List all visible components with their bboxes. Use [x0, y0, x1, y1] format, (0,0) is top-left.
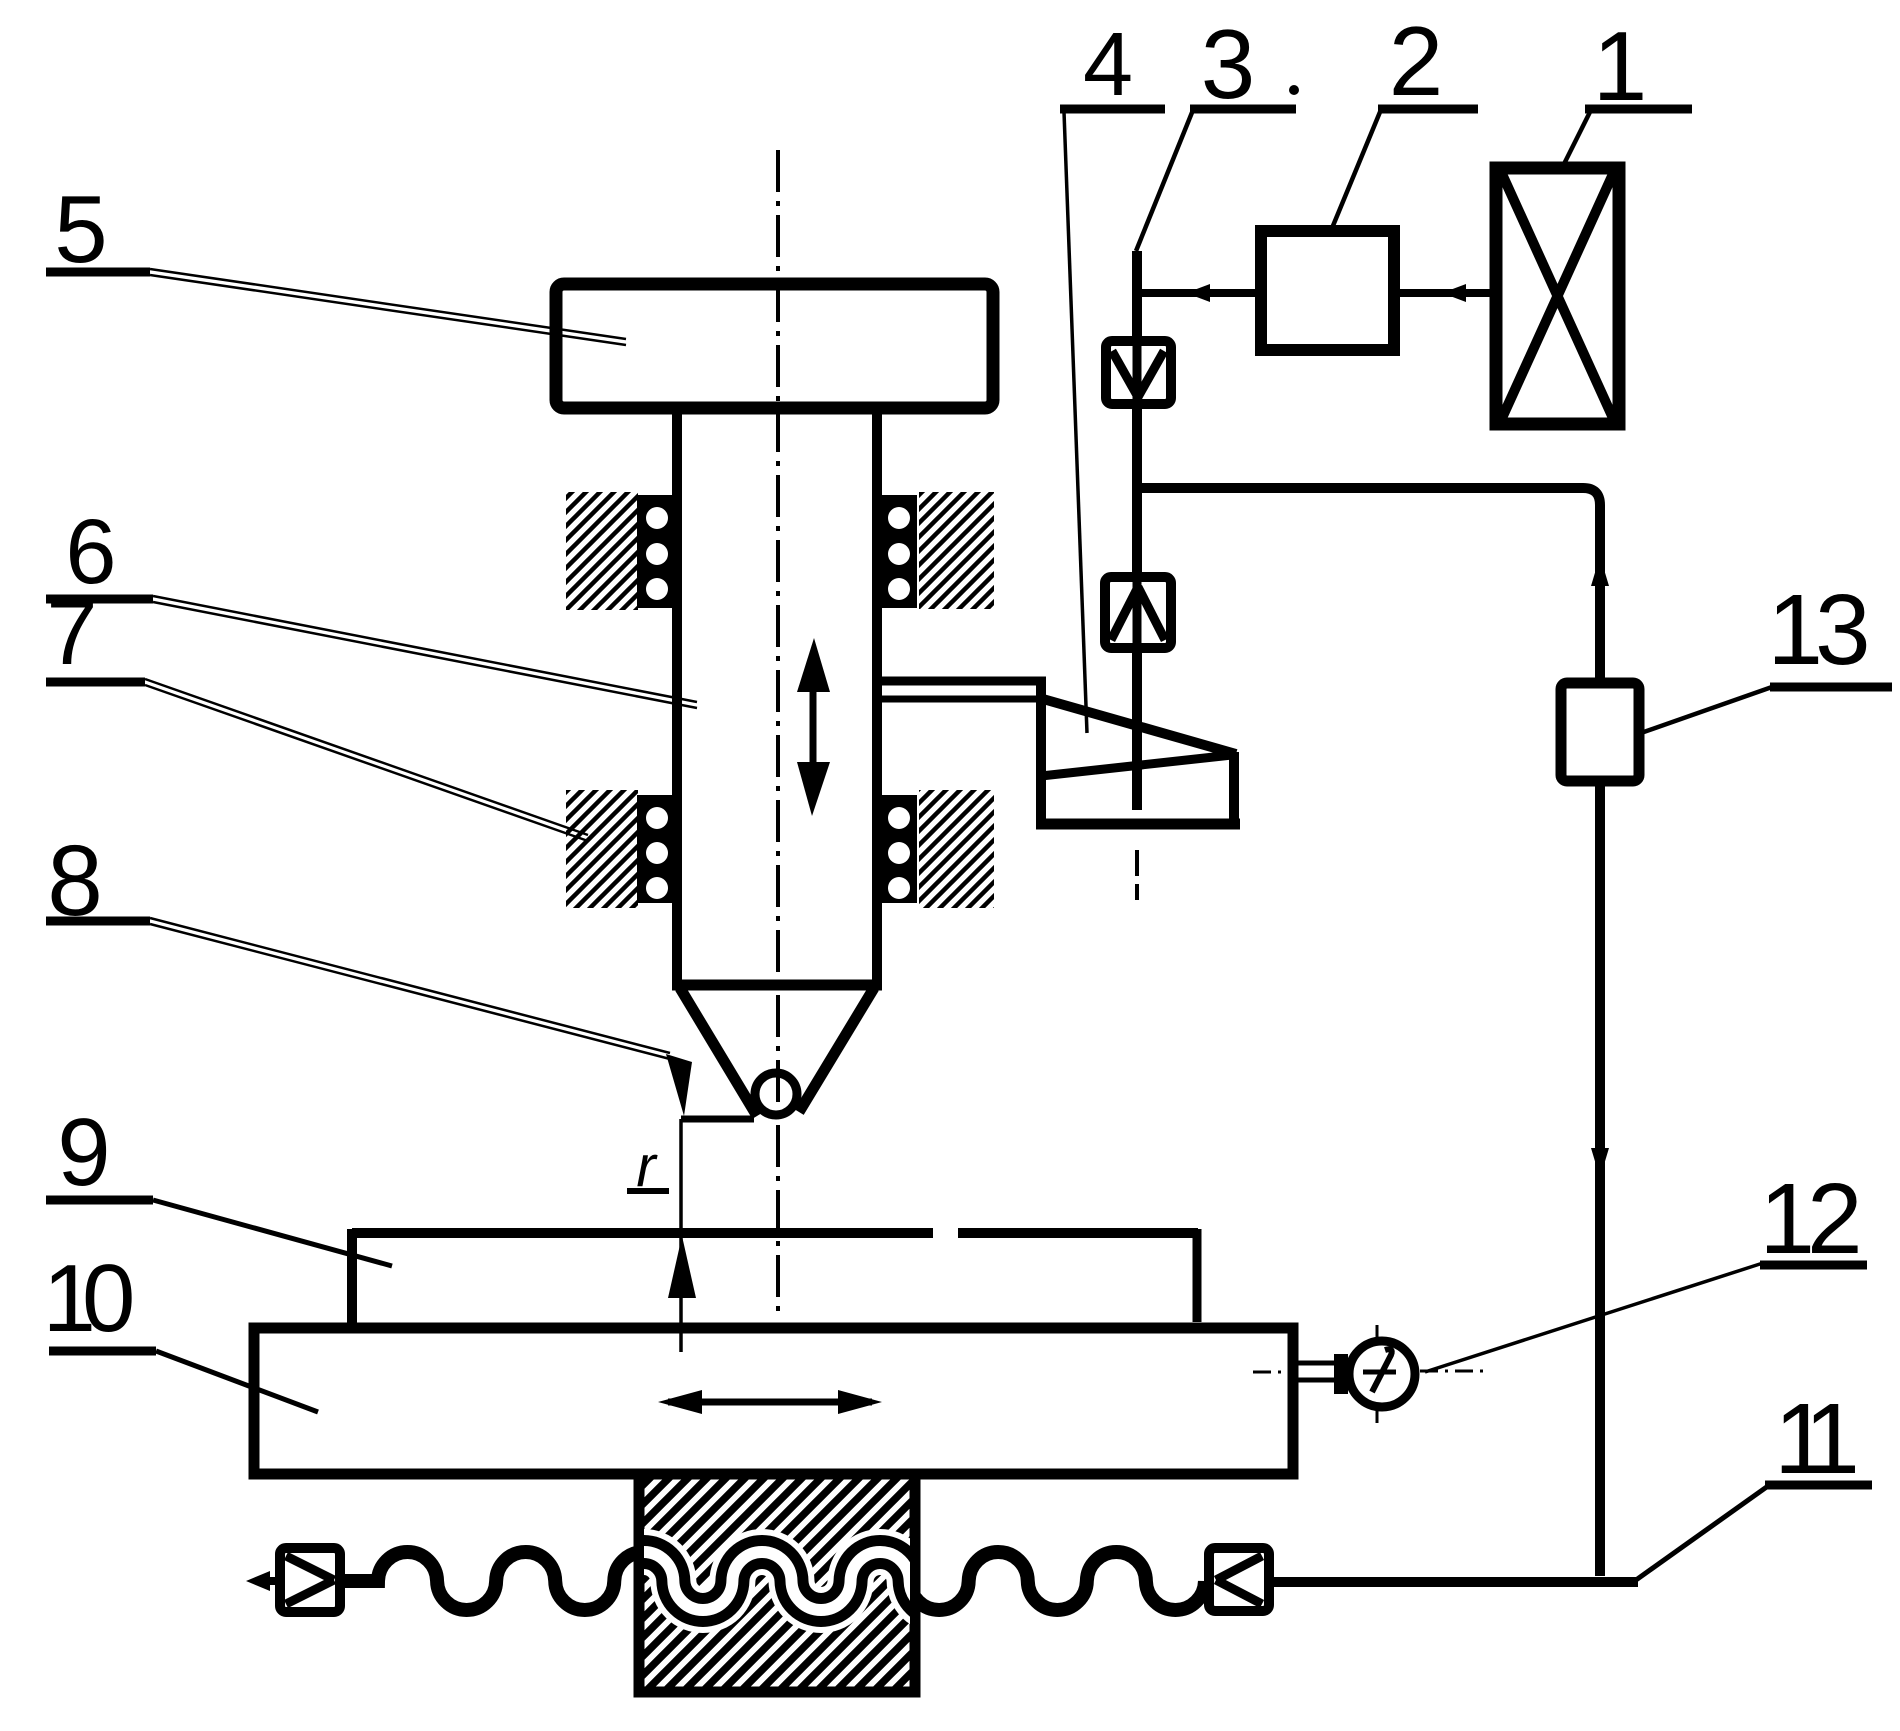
svg-text:9: 9	[57, 1099, 110, 1206]
svg-text:4: 4	[1083, 15, 1133, 115]
svg-text:12: 12	[1759, 1163, 1858, 1275]
svg-text:13: 13	[1767, 574, 1867, 686]
svg-text:5: 5	[54, 176, 107, 283]
svg-text:7: 7	[46, 582, 97, 684]
svg-text:2: 2	[1389, 6, 1444, 116]
svg-text:3: 3	[1201, 9, 1256, 119]
svg-text:10: 10	[43, 1245, 132, 1352]
